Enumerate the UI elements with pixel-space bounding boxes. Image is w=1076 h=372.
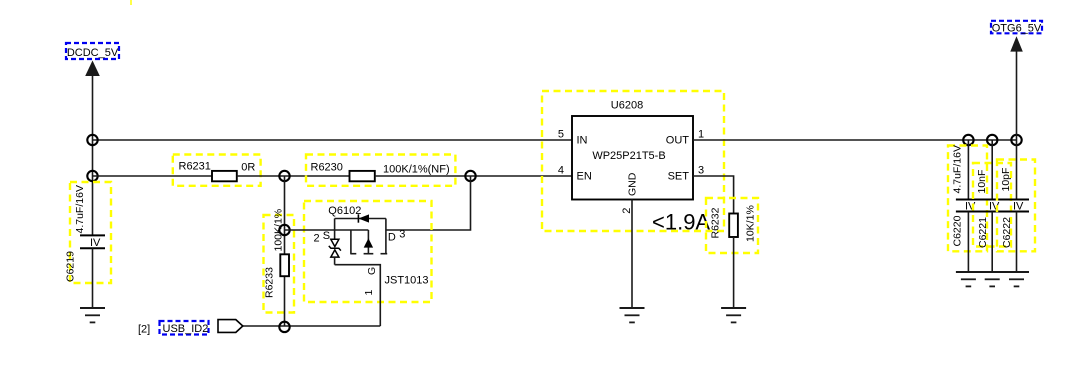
- svg-text:C6221: C6221: [977, 217, 989, 248]
- svg-text:OUT: OUT: [666, 135, 690, 147]
- power flag DCDC_5V: [66, 43, 119, 76]
- wire U6208 SET pin to R6232: [693, 176, 734, 214]
- wire U6208 GND pin to ground: [631, 200, 633, 309]
- svg-text:C6219: C6219: [65, 251, 77, 282]
- node junction at (284.5,230): [279, 225, 289, 235]
- svg-text:4: 4: [558, 165, 564, 177]
- svg-text:IV: IV: [989, 201, 1000, 213]
- node junction at (968.4,140): [963, 135, 973, 145]
- svg-text:IN: IN: [577, 135, 588, 147]
- svg-text:SET: SET: [668, 171, 690, 183]
- wire C6219 bottom to ground: [92, 248, 94, 308]
- wire from junction (470.5,176) down to Q6102 drain: [386, 176, 471, 230]
- svg-text:S: S: [323, 230, 330, 242]
- svg-text:Q6102: Q6102: [328, 205, 361, 217]
- ground under U6208 GND: [620, 308, 645, 322]
- svg-text:IV: IV: [1013, 201, 1024, 213]
- svg-text:OTG6_5V: OTG6_5V: [992, 23, 1042, 35]
- svg-text:1: 1: [698, 129, 704, 141]
- MOSFET channel plate: [350, 230, 352, 254]
- capacitor C6222: [997, 160, 1035, 273]
- svg-text:R6232: R6232: [710, 207, 722, 238]
- svg-text:EN: EN: [577, 171, 592, 183]
- ground under C6219: [80, 308, 105, 322]
- wire net row1 left (DCDC_5V to U6208 IN): [93, 139, 573, 141]
- node junction at (284.5,176): [279, 171, 289, 181]
- wire USB_ID2 net: [242, 325, 380, 327]
- resistor R6232: [706, 198, 758, 253]
- svg-text:3: 3: [399, 229, 405, 241]
- svg-text:USB_ID2: USB_ID2: [163, 323, 209, 335]
- ground under C6220: [956, 272, 981, 286]
- svg-text:4.7uF/16V: 4.7uF/16V: [74, 185, 86, 233]
- svg-text:5: 5: [558, 129, 564, 141]
- svg-text:10nF: 10nF: [976, 170, 988, 194]
- svg-text:4.7uF/16V: 4.7uF/16V: [952, 145, 964, 193]
- svg-text:<1.9A: <1.9A: [652, 210, 710, 235]
- svg-text:C6220: C6220: [952, 215, 964, 246]
- node junction at (92.5,140): [87, 135, 97, 145]
- svg-text:R6233: R6233: [264, 267, 276, 298]
- svg-text:G: G: [366, 267, 378, 275]
- transistor Q6102: [285, 201, 432, 326]
- wire Q6102 left vertical (S to gate zener): [334, 219, 336, 240]
- svg-text:3: 3: [698, 165, 704, 177]
- svg-text:[2]: [2]: [138, 324, 150, 336]
- svg-text:1: 1: [363, 290, 375, 296]
- svg-text:D: D: [388, 232, 396, 244]
- svg-text:JST1013: JST1013: [385, 275, 429, 287]
- capacitor C6220: [948, 140, 987, 272]
- wire row2 between R6230 and U6208 EN: [375, 175, 572, 177]
- node junction at (92.5,176): [87, 171, 97, 181]
- ground under C6222: [1004, 272, 1029, 286]
- dashed channel line: [350, 253, 356, 255]
- svg-text:R6231: R6231: [179, 161, 211, 173]
- svg-text:GND: GND: [627, 172, 639, 196]
- capacitor C6221: [973, 140, 1011, 272]
- svg-text:10pF: 10pF: [1000, 168, 1012, 192]
- wire row2 between R6231 and R6230: [237, 175, 350, 177]
- svg-text:IV: IV: [965, 201, 976, 213]
- ground under C6221: [980, 272, 1005, 286]
- wire DCDC_5V vertical rail: [92, 74, 94, 236]
- ground under R6232: [721, 308, 746, 322]
- wire net row1 right (U6208 OUT to OTG6_5V): [693, 139, 1017, 141]
- svg-text:WP25P21T5-B: WP25P21T5-B: [592, 150, 665, 162]
- resistor R6231: [173, 155, 261, 186]
- wire R6232 to ground: [733, 237, 735, 308]
- svg-text:U6208: U6208: [611, 100, 643, 112]
- node junction at (284.5,326): [279, 322, 289, 332]
- svg-text:0R: 0R: [241, 162, 255, 174]
- svg-text:IV: IV: [90, 237, 101, 249]
- svg-text:2: 2: [314, 233, 320, 245]
- wire net row2 segment left: [93, 175, 213, 177]
- stray yellow dash top edge: [130, 0, 132, 5]
- capacitor C6219: [65, 182, 112, 283]
- svg-text:C6222: C6222: [1001, 217, 1013, 248]
- wire Q6102 top body-diode branch: [335, 218, 386, 220]
- resistor R6230: [306, 155, 455, 186]
- off-page connector USB_ID2: [138, 320, 243, 336]
- node junction at (992.2,140): [987, 135, 997, 145]
- body diode vertical with arrow: [367, 230, 369, 254]
- diode on top branch: [357, 214, 359, 222]
- wire Q6102 gate lead: [335, 265, 381, 326]
- svg-text:DCDC_5V: DCDC_5V: [67, 47, 119, 59]
- svg-text:R6230: R6230: [311, 162, 343, 174]
- node junction at (1016.5,140): [1011, 135, 1021, 145]
- power flag OTG6_5V: [991, 21, 1042, 52]
- wire Q6102 source lead: [285, 229, 369, 231]
- svg-text:10K/1%: 10K/1%: [745, 205, 757, 242]
- IC U6208: [542, 91, 724, 231]
- svg-text:100K/1%(NF): 100K/1%(NF): [383, 164, 450, 176]
- resistor R6233: [264, 176, 295, 326]
- wire Q6102 right vertical (drain): [385, 219, 387, 254]
- node junction at (470.5,176): [465, 171, 475, 181]
- zener diode gate protection: [331, 239, 339, 246]
- wire OTG6_5V vertical rail: [1016, 50, 1018, 200]
